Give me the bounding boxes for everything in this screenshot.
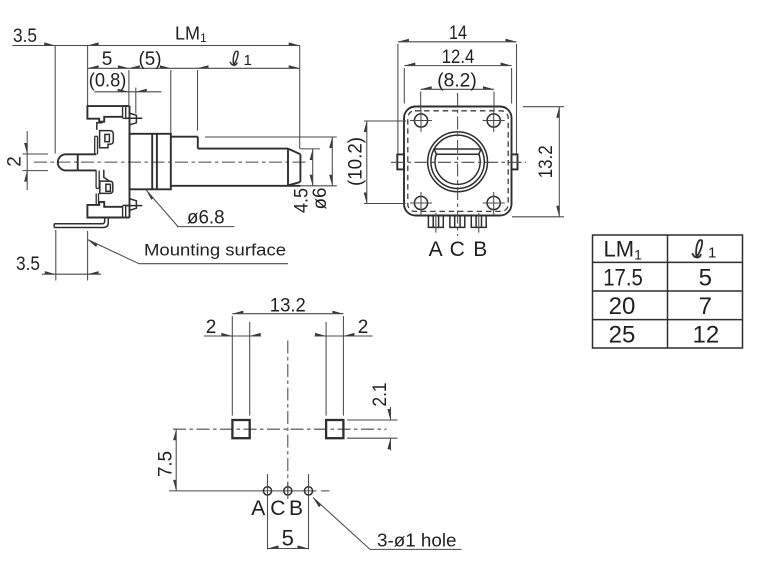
dim 2 right bbox=[315, 317, 373, 338]
top lug bbox=[87, 106, 129, 122]
svg-text:(0.8): (0.8) bbox=[89, 71, 127, 92]
rivet bottom-left bbox=[410, 192, 432, 214]
bushing bbox=[130, 134, 171, 190]
rivet bottom-right bbox=[483, 192, 505, 214]
svg-text:(8.2): (8.2) bbox=[437, 71, 477, 92]
body plate bbox=[129, 106, 131, 218]
svg-text:Mounting surface: Mounting surface bbox=[144, 242, 286, 260]
svg-text:2: 2 bbox=[206, 317, 217, 338]
svg-text:17.5: 17.5 bbox=[603, 265, 643, 292]
dim (8.2) bbox=[421, 71, 494, 112]
dim 13.2 right bbox=[512, 107, 564, 217]
leader Mounting surface bbox=[86, 240, 288, 264]
svg-text:B: B bbox=[473, 238, 487, 261]
svg-text:1: 1 bbox=[244, 52, 252, 69]
flat top line bbox=[434, 148, 481, 150]
svg-text:12: 12 bbox=[693, 322, 720, 349]
svg-text:A: A bbox=[429, 238, 443, 261]
vertical centerline bbox=[457, 93, 459, 236]
svg-text:14: 14 bbox=[449, 23, 467, 44]
shaft bbox=[171, 137, 301, 186]
shaft circle with flat bbox=[435, 154, 480, 184]
dim 2 left bbox=[204, 317, 261, 338]
hole B bbox=[304, 487, 312, 495]
svg-text:(5): (5) bbox=[139, 49, 162, 70]
flat lower line bbox=[436, 153, 479, 155]
horizontal centerline bbox=[391, 161, 526, 163]
svg-text:3.5: 3.5 bbox=[16, 254, 40, 275]
labels A C B bbox=[251, 497, 303, 520]
top side tab bbox=[130, 113, 136, 124]
svg-text:3.5: 3.5 bbox=[13, 26, 37, 47]
ext lines chain bbox=[128, 70, 130, 106]
dim 4.5 / ø6 ext lines bbox=[205, 136, 337, 138]
dim 4.5 bbox=[292, 149, 313, 213]
terminal clip upper bbox=[95, 123, 114, 155]
svg-text:A: A bbox=[251, 497, 265, 520]
svg-text:13.2: 13.2 bbox=[270, 296, 306, 317]
hole verticals bbox=[267, 474, 269, 550]
rivet top-left bbox=[410, 110, 432, 132]
support bracket bbox=[54, 218, 108, 228]
svg-text:(10.2): (10.2) bbox=[346, 137, 367, 186]
hole C bbox=[284, 487, 292, 495]
left pad bbox=[232, 420, 249, 438]
vertical centerline bbox=[287, 341, 289, 498]
inner dashed outline bbox=[408, 111, 508, 212]
bushing circle bbox=[428, 132, 488, 192]
svg-text:B: B bbox=[289, 497, 303, 520]
table header l1 bbox=[693, 240, 703, 257]
chain dim 5 (5) l1 bbox=[88, 49, 300, 70]
dim 14 bbox=[398, 23, 517, 154]
dim 7.5 bbox=[156, 429, 177, 491]
svg-text:20: 20 bbox=[609, 293, 636, 320]
hole A bbox=[263, 487, 271, 495]
terminal C box bbox=[450, 216, 465, 228]
pad centerline bbox=[173, 428, 387, 430]
shaft centerline bbox=[34, 161, 308, 163]
svg-text:13.2: 13.2 bbox=[536, 145, 557, 178]
svg-text:7.5: 7.5 bbox=[156, 451, 177, 477]
svg-text:12.4: 12.4 bbox=[442, 47, 475, 68]
flat end connectors bbox=[434, 149, 436, 154]
dim 12.4 bbox=[404, 47, 511, 104]
ring circle bbox=[431, 135, 484, 188]
dim ø6 bbox=[310, 137, 333, 210]
right pad bbox=[326, 420, 343, 438]
terminal B box bbox=[471, 216, 486, 228]
svg-text:5: 5 bbox=[102, 49, 113, 70]
svg-text:5: 5 bbox=[699, 265, 712, 292]
pin (left shaft) bbox=[58, 154, 97, 170]
svg-text:7: 7 bbox=[699, 293, 712, 320]
terminal clip lower bbox=[96, 170, 113, 205]
body outline bbox=[404, 107, 512, 216]
top dim line 3.5 / LM1 bbox=[12, 24, 300, 48]
svg-text:5: 5 bbox=[282, 526, 294, 551]
table frame bbox=[593, 235, 743, 348]
dim 2 (pin) bbox=[5, 131, 49, 190]
svg-text:C: C bbox=[270, 497, 285, 520]
ext verticals pads bbox=[231, 316, 233, 416]
left tab bbox=[397, 154, 404, 169]
holes line bbox=[169, 490, 317, 492]
dim 5 bbox=[268, 526, 309, 551]
svg-text:2: 2 bbox=[358, 317, 369, 338]
svg-text:2.1: 2.1 bbox=[370, 383, 391, 407]
dim 2.1 bbox=[347, 383, 398, 451]
rivet top-right bbox=[483, 110, 505, 132]
svg-text:3-ø1 hole: 3-ø1 hole bbox=[377, 530, 457, 551]
svg-text:2: 2 bbox=[5, 156, 26, 167]
svg-text:C: C bbox=[450, 238, 465, 261]
bottom dim 3.5 bbox=[16, 230, 101, 281]
right tab bbox=[512, 154, 518, 169]
ext line pin tip bbox=[54, 46, 56, 154]
dim (0.8) bbox=[89, 71, 162, 114]
terminal A box bbox=[428, 216, 443, 228]
ext line mounting plane top bbox=[87, 46, 89, 106]
svg-text:25: 25 bbox=[609, 322, 636, 349]
labels A C B bbox=[429, 238, 488, 261]
dim (10.2) left bbox=[346, 121, 407, 204]
svg-text:ø6.8: ø6.8 bbox=[187, 208, 225, 229]
leader 3-ø1 hole bbox=[311, 498, 462, 551]
svg-text:ø6: ø6 bbox=[310, 188, 331, 210]
table values bbox=[603, 265, 719, 349]
dim 13.2 bbox=[232, 296, 343, 317]
bottom lug bbox=[87, 202, 129, 218]
svg-text:1: 1 bbox=[708, 245, 716, 262]
leader ø6.8 bbox=[144, 190, 235, 229]
bottom side tab bbox=[130, 199, 136, 210]
